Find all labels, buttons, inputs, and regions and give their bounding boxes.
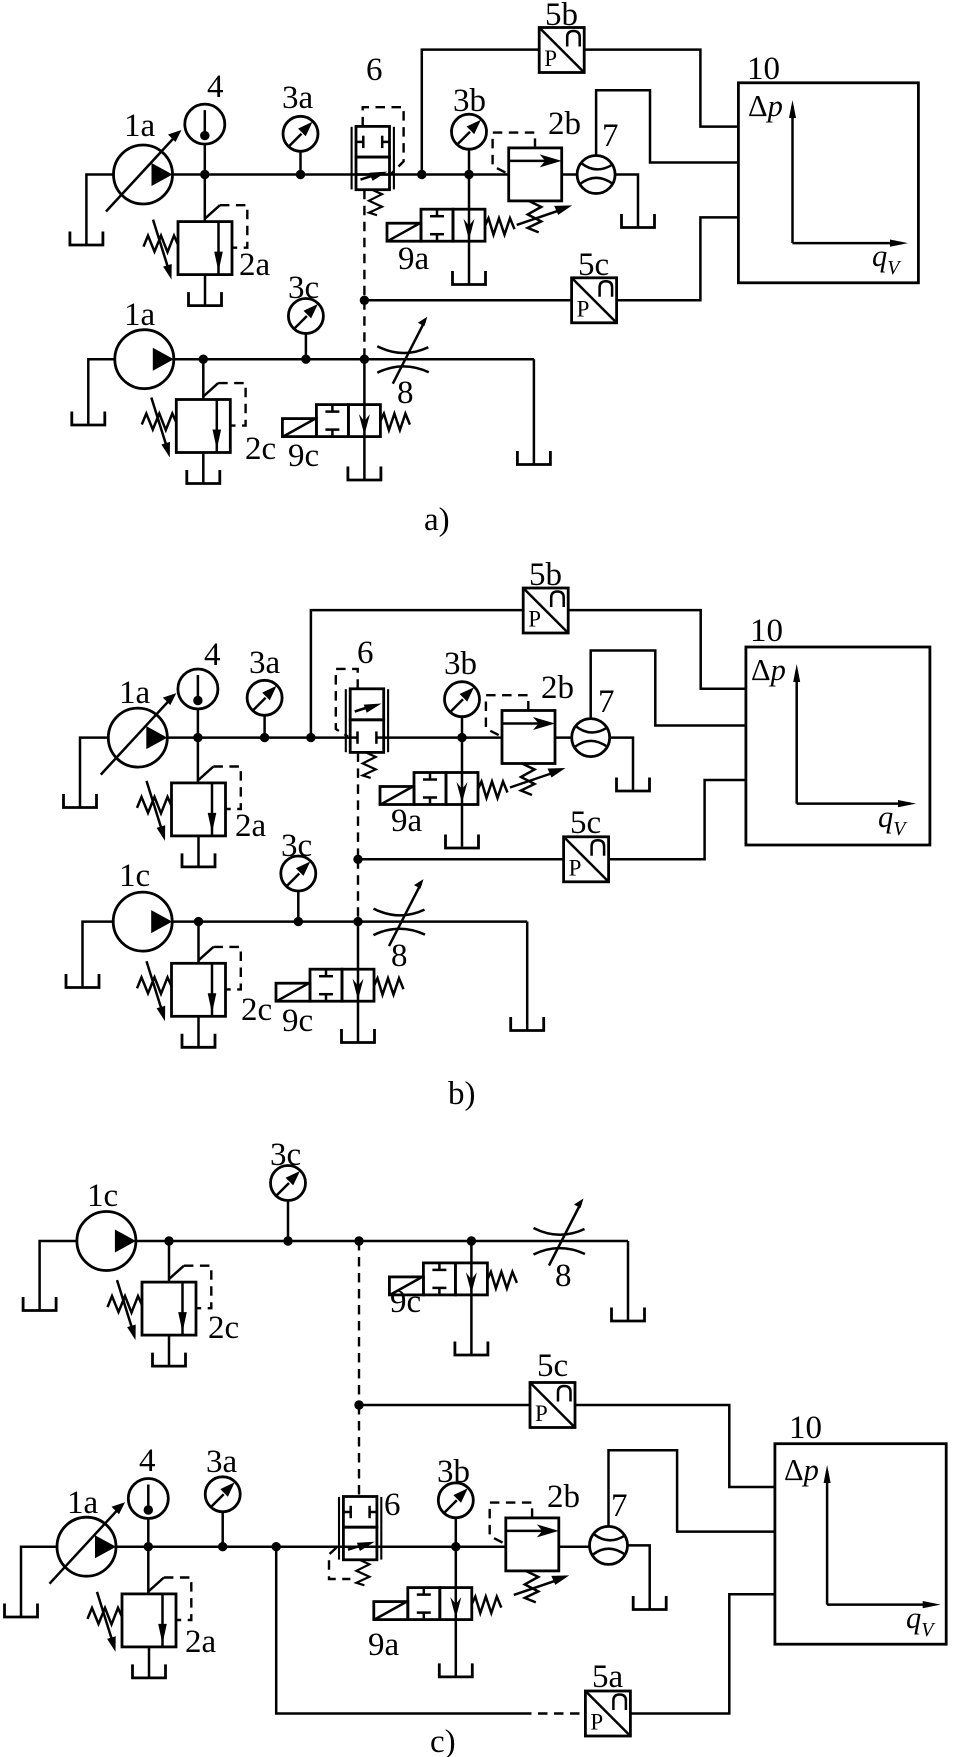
wire: 5c output to recorder 10 [617,217,739,300]
svg-text:7: 7 [598,684,615,720]
wire: branch to relief valve 2a [197,738,200,783]
wire: branch down through valve 9c to tank [363,359,366,479]
svg-text:9a: 9a [391,803,423,839]
wire: branch down through valve 9c to tank [357,922,360,1042]
svg-text:1a: 1a [67,1485,99,1521]
throttle valve 8 [374,879,426,946]
tank: upper line end tank [612,1308,645,1322]
wire: gauge 3a stem [299,151,302,174]
gauge 3a [205,1477,240,1512]
wire: 5c output to recorder 10 [575,1405,775,1487]
svg-text:2b: 2b [548,106,581,142]
wire: branch down through valve 9a to tank [461,738,464,847]
tank: under valve 9c [348,467,381,481]
svg-text:2c: 2c [245,431,276,467]
relief valve 2c [142,383,246,483]
wire: branch down through valve 9a to tank [468,175,471,284]
wire: flow signal loop to recorder 10 [591,651,746,726]
svg-text:2a: 2a [235,808,267,844]
recorder 10: delta-p axis [791,106,794,243]
node: junction branch 2c [194,917,203,926]
wire: lower main line (pump 1a circuit) [116,1545,506,1548]
wire: branch down through valve 9a to tank [455,1547,458,1676]
transducer 5c [564,837,609,882]
svg-text:1a: 1a [119,675,151,711]
node: junction under gauge 3b [451,1542,460,1551]
pump 1a (variable displacement) [101,693,177,775]
transducer 5c [530,1383,575,1428]
wire: pump suction line [86,175,113,245]
svg-text:1a: 1a [124,297,156,333]
wire: gauge 4 stem [147,1518,150,1547]
node: junction under gauge 4 [200,170,209,179]
pump 1a (second, fixed) [115,330,174,389]
wire: flow signal loop to recorder 10 [609,1450,775,1531]
gauge 4 [185,104,225,144]
throttle valve 8 [377,317,429,384]
node: junction upstream sense point [306,733,315,742]
svg-text:8: 8 [397,375,414,411]
node: junction under gauge 3b [457,733,466,742]
flow control valve 2b [486,695,566,795]
flow meter 7 [577,156,615,194]
svg-text:6: 6 [357,635,374,671]
wire: gauge 3c stem [305,334,308,360]
gauge 4 [128,1479,168,1519]
wire: branch to relief 2c [197,922,200,964]
gauge 3b [438,1483,473,1518]
valve 9c (2/2 solenoid) [282,405,410,437]
wire: branch down through valve 9c to tank [470,1241,473,1354]
recorder 10 box [746,647,930,845]
wire: sense line up to transducer 5b [422,50,539,175]
valve 6: bottom box (open) [343,1527,377,1560]
wire: dashed gap before 5a [522,1712,585,1714]
node: junction sense take-off to 5a [272,1542,281,1551]
relief valve 2a [137,767,241,867]
gauge 3a [283,116,318,151]
wire: 5c sense line [358,858,564,861]
wire: pump 1a suction [21,1547,58,1617]
wire: flow meter outlet to tank [615,175,638,228]
node: junction on 5c sense line [354,1400,363,1409]
svg-text:2c: 2c [241,992,272,1028]
svg-text:c): c) [430,1724,456,1757]
svg-text:2a: 2a [239,247,271,283]
svg-text:Δp: Δp [751,653,786,687]
node: junction pilot take-off [354,1236,363,1245]
svg-text:9a: 9a [398,241,430,277]
svg-text:3a: 3a [249,645,281,681]
flow meter 7 [572,719,610,757]
wire: 2b to flow meter 7 [555,736,572,739]
valve 6: spring below [356,1560,369,1586]
svg-text:9a: 9a [368,1627,400,1663]
wire: flow meter outlet to tank [610,738,633,790]
tank: flow meter outlet tank [633,1596,666,1610]
wire: pilot dashed line to lower main line [363,300,365,359]
transducer 5b [523,588,568,633]
wire: gauge 3b stem [468,150,471,175]
svg-text:3b: 3b [453,83,486,119]
svg-text:3a: 3a [206,1444,238,1480]
valve 9a (2/2 solenoid) [374,1588,502,1620]
valve 6: side rails [345,689,347,752]
svg-text:5c: 5c [570,805,601,841]
node: junction dashed pilot / 9c branch [360,355,369,364]
wire: upper main line (pump 1c circuit) [136,1240,628,1243]
node: junction under gauge 3c [283,1236,292,1245]
valve 6: pilot dashed box bottom-left [329,1548,350,1580]
valve 6: pilot dashed box on left [336,669,358,737]
svg-text:10: 10 [789,1410,822,1446]
wire: gauge 3c stem [297,890,300,922]
wire: branch to relief valve 2a [147,1547,150,1594]
wire: lower main line 2 [172,920,527,923]
recorder 10: delta-p axis [826,1471,829,1605]
valve 6: spring below [369,190,382,216]
pump 1a (variable displacement) [106,130,182,212]
svg-text:1c: 1c [119,858,150,894]
svg-text:7: 7 [611,1488,628,1524]
svg-text:6: 6 [366,52,383,88]
node: junction under gauge 3b [464,170,473,179]
recorder 10 box [738,83,918,283]
wire: sense line down and right to 5a [276,1547,522,1714]
pump 1a (variable displacement) [50,1502,126,1584]
wire: 5b output to recorder 10 [584,50,738,127]
svg-text:2b: 2b [541,670,574,706]
svg-text:8: 8 [391,938,408,974]
svg-text:8: 8 [555,1258,572,1294]
wire: pilot dashed line below valve 6 [357,752,359,859]
tank: under valve 9a [439,1663,472,1677]
relief valve 2a [88,1578,192,1678]
valve 6: bottom box (open) [356,157,390,190]
gauge 4 [178,669,218,709]
node: junction on 5c sense line [360,296,369,305]
svg-text:qV: qV [906,1601,936,1641]
svg-text:Δp: Δp [784,1453,819,1487]
wire: branch to relief valve 2a [204,175,207,222]
valve 6: top box (closed) [356,126,390,157]
valve 6: bottom box (closed) [350,720,384,753]
svg-text:5c: 5c [537,1348,568,1384]
wire: branch to relief 2c [202,359,205,399]
valve 6: spring below [363,752,376,778]
node: junction under gauge 4 [193,733,202,742]
node: junction under gauge 3c [294,917,303,926]
gauge 3b [445,682,480,717]
tank: flow meter outlet tank [622,214,655,228]
wire: 5b output to recorder 10 [568,610,746,689]
wire: dashed pilot line down to 5c junction [358,1241,360,1405]
svg-text:3b: 3b [437,1454,470,1490]
svg-text:6: 6 [384,1487,401,1523]
wire: gauge 3b stem [455,1517,458,1546]
tank: pump 1a(2) suction tank [72,412,105,426]
svg-text:9c: 9c [390,1284,421,1320]
recorder 10 box [775,1444,946,1645]
node: junction dashed pilot / 9c branch [353,917,362,926]
pump 1c (fixed) [77,1212,136,1271]
svg-text:a): a) [424,502,450,538]
flow control valve 2b [493,133,573,233]
valve 6: pilot dashed box [363,107,404,174]
gauge 3c [288,299,323,334]
svg-text:3a: 3a [282,80,314,116]
svg-text:3b: 3b [444,646,477,682]
wire: main supply line 1b (left of valve 6) [167,736,350,739]
svg-text:4: 4 [139,1443,156,1479]
wire: 5c sense line [364,299,571,302]
svg-text:2a: 2a [185,1624,217,1660]
svg-text:5b: 5b [529,557,562,593]
tank: pump 1a suction tank [5,1604,38,1618]
recorder 10: qV axis [793,242,903,245]
tank: under valve 9c [342,1029,375,1043]
svg-text:10: 10 [747,51,780,87]
wire: main supply line 1a [173,173,509,176]
svg-text:7: 7 [602,118,619,154]
tank: pump 1c suction tank [23,1297,56,1311]
svg-text:4: 4 [207,69,224,105]
flow meter 7 [590,1526,628,1564]
valve 9a (2/2 solenoid) [380,773,508,805]
node: junction branch 2c [164,1236,173,1245]
wire: gauge 4 stem [197,709,200,738]
svg-text:5c: 5c [578,247,609,283]
gauge 3b [452,114,487,149]
recorder 10: delta-p axis [795,670,798,804]
tank: pump 1a suction tank [64,794,97,808]
flow control valve 2b [490,1503,570,1603]
wire: main supply line 1b (right of valve 6) [384,736,502,739]
transducer 5b [539,28,584,73]
tank: under valve 9c [455,1342,488,1356]
tank: pump 1a suction tank [70,232,103,246]
tank: line 2 end tank [511,1017,544,1031]
gauge 3a [247,680,282,715]
recorder 10: qV axis [797,802,910,805]
wire: 2b to flow meter 7 [559,1545,590,1548]
svg-text:4: 4 [204,637,221,673]
wire: pump 1c suction [40,1241,77,1310]
node: junction 9c branch [467,1236,476,1245]
wire: gauge 4 stem [204,144,207,175]
svg-text:5a: 5a [592,1659,624,1695]
svg-text:Δp: Δp [748,89,783,123]
wire: branch to relief 2c [168,1241,171,1282]
relief valve 2a [144,205,248,305]
wire: pump 1a(2) suction [88,359,115,424]
tank: line 2 end tank [517,451,550,465]
svg-text:3c: 3c [288,270,319,306]
tank: under valve 9a [446,835,479,849]
wire: gauge 3a stem [221,1512,224,1547]
valve 6: side rails [351,127,353,190]
wire: gauge 3b stem [461,717,464,738]
recorder 10: qV axis [827,1603,935,1606]
wire: 5c output to recorder 10 [609,780,746,859]
svg-text:5b: 5b [545,0,578,33]
wire: gauge 3a stem [263,715,266,737]
transducer 5c [572,278,617,323]
wire: 5c sense line [359,1404,530,1407]
svg-text:1a: 1a [124,108,156,144]
relief valve 2c [137,947,241,1047]
svg-text:1c: 1c [87,1178,118,1214]
node: junction branch 2c [199,355,208,364]
valve 6: top box (open) [350,689,384,720]
svg-text:3c: 3c [281,828,312,864]
svg-text:9c: 9c [282,1003,313,1039]
wire: line 2 to tank [533,359,536,464]
valve 6: top box (closed) [343,1497,377,1528]
node: junction upstream sense point [417,170,426,179]
wire: pump 1c suction [83,922,114,987]
gauge 3c [271,1166,306,1201]
throttle valve 8 [534,1199,586,1266]
svg-text:b): b) [448,1076,476,1112]
wire: 5a output to recorder 10 [630,1594,775,1713]
wire: gauge 3c stem [287,1201,290,1241]
relief valve 2c [108,1266,212,1366]
wire: flow signal loop to recorder 10 [596,90,738,162]
valve 9c (2/2 solenoid) [276,969,404,1001]
node: junction under gauge 4 [144,1542,153,1551]
node: junction under gauge 3a [218,1542,227,1551]
tank: flow meter outlet tank [617,778,650,792]
wire: sense line up to transducer 5b [311,610,523,738]
gauge 3c [281,856,316,891]
valve 6: side rails [338,1497,340,1560]
transducer 5a [585,1691,630,1736]
wire: 2b to flow meter 7 [562,173,577,176]
node: junction under gauge 3a [260,733,269,742]
svg-text:3c: 3c [270,1137,301,1173]
svg-text:10: 10 [750,613,783,649]
wire: upper line to tank [627,1241,630,1321]
wire: pump suction line [80,738,109,807]
wire: lower main line 2 [174,358,534,361]
node: junction on 5c sense line [353,855,362,864]
svg-text:2b: 2b [547,1479,580,1515]
wire: pilot dashed line below valve 6 [363,190,365,301]
tank: under valve 9a [453,271,486,285]
wire: flow meter outlet to tank [628,1545,650,1609]
wire: pilot dashed line to lower main line [357,859,359,921]
valve 9c (2/2 solenoid) [389,1263,517,1295]
wire: dashed pilot line down to valve 6 [358,1405,360,1497]
pump 1c (fixed) [113,892,172,951]
valve 9a (2/2 solenoid) [387,209,515,241]
node: junction under gauge 3c [301,355,310,364]
svg-text:2c: 2c [208,1310,239,1346]
node: junction under gauge 3a [296,170,305,179]
wire: line 2 to tank [526,922,529,1030]
tank: pump 1c suction tank [66,974,99,988]
svg-text:9c: 9c [288,438,319,474]
